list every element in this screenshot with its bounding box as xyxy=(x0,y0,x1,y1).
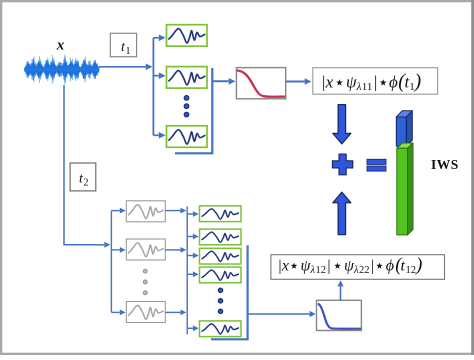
lowpass filter phi (blue) xyxy=(317,300,362,330)
formula box |x*psi_l12|*|psi_l22|*phi(t12) xyxy=(271,255,445,280)
svg-text:|x: |x xyxy=(321,73,334,92)
lowpass filter phi (red) xyxy=(236,68,285,99)
formula box |x*psi_l11|*phi(t1) xyxy=(313,68,438,95)
wire: waveform down to level-2 splitter xyxy=(64,85,96,245)
ellipsis dots level 2 xyxy=(218,288,223,314)
wire: branch arrow to level-2 wavelet box xyxy=(187,255,193,257)
wire: gray box output arrow xyxy=(165,249,180,251)
wavelet filter psi level1 box1 xyxy=(167,25,208,47)
svg-text:|: | xyxy=(373,73,378,92)
3D bar green (second-order coefficients) xyxy=(397,143,413,235)
wire: branch arrow to gray wavelet box xyxy=(111,249,119,251)
wire: collector to lowpass arrow xyxy=(212,80,228,82)
wavelet filter psi level1 box3 xyxy=(167,126,208,148)
svg-text:ϕ: ϕ xyxy=(389,73,398,92)
wire: level-2 splitter vertical xyxy=(110,211,112,313)
wire: branch arrow to gray wavelet box xyxy=(111,210,119,212)
input signal waveform x xyxy=(25,55,99,85)
wavelet filter psi level2 xyxy=(200,248,242,264)
svg-text:): ) xyxy=(414,71,422,93)
svg-text:12: 12 xyxy=(316,265,327,276)
plus sign xyxy=(332,154,352,175)
svg-text:ψ: ψ xyxy=(346,73,357,92)
equals sign xyxy=(367,159,386,164)
svg-text:1: 1 xyxy=(126,46,131,57)
svg-text:λ: λ xyxy=(356,81,362,93)
svg-text:2: 2 xyxy=(84,178,89,189)
wire: collector to lowpass2 arrow xyxy=(248,313,310,315)
svg-text:IWS: IWS xyxy=(431,157,459,172)
block arrow down xyxy=(333,105,351,144)
wire: branch arrow to level-2 wavelet box xyxy=(187,273,193,275)
wavelet filter psi level2 xyxy=(200,267,242,283)
3D bar blue (first-order coefficients) xyxy=(396,111,412,147)
wire: gray box output arrow xyxy=(165,210,180,212)
svg-text:11: 11 xyxy=(362,81,373,93)
wire: lowpass2 to formula2 arrow xyxy=(340,286,342,300)
wire: level-2 mid distribution line xyxy=(186,207,188,335)
block arrow up xyxy=(333,192,351,235)
wavelet filter gray (first sub-band bank) xyxy=(126,302,165,323)
wire: branch arrow to wavelet box 2 xyxy=(153,75,158,77)
svg-text:22: 22 xyxy=(359,265,370,276)
wavelet filter psi level2 xyxy=(200,206,242,222)
wire: lowpass to formula1 arrow xyxy=(286,81,305,83)
wire: level-1 collector xyxy=(175,68,212,153)
wire: level-1 splitter vertical xyxy=(152,38,154,136)
wire: branch arrow to level-2 wavelet box xyxy=(187,236,193,238)
wire: gray box output arrow xyxy=(165,311,180,313)
box t1 xyxy=(110,33,136,57)
svg-text:|x: |x xyxy=(278,258,290,275)
svg-text:x: x xyxy=(56,38,65,54)
wire: branch arrow to wavelet box 1 xyxy=(153,37,158,39)
box t2 xyxy=(70,163,96,191)
ellipsis dots gray xyxy=(143,269,147,295)
svg-text:|: | xyxy=(327,258,331,275)
svg-text:|: | xyxy=(370,258,374,275)
ellipsis dots level 1 xyxy=(184,96,189,118)
svg-text:ϕ: ϕ xyxy=(386,258,394,275)
wire: branch arrow to wavelet box 3 xyxy=(153,134,158,136)
wire: level-2 collector xyxy=(211,245,248,339)
wavelet filter gray (first sub-band bank) xyxy=(126,239,165,260)
wavelet filter psi level2 xyxy=(200,321,242,337)
svg-text:): ) xyxy=(415,255,422,276)
wire: waveform to level-1 splitter xyxy=(99,66,146,68)
wire: branch arrow to level-2 wavelet box xyxy=(187,327,193,329)
wavelet filter psi level2 xyxy=(200,229,242,245)
wavelet filter psi level1 box2 xyxy=(167,67,208,89)
border frame xyxy=(0,0,474,2)
wire: branch arrow to level-2 wavelet box xyxy=(187,213,193,215)
wavelet filter gray (first sub-band bank) xyxy=(126,201,165,222)
wire: branch arrow to gray wavelet box xyxy=(111,311,119,313)
svg-text:12: 12 xyxy=(406,265,417,276)
